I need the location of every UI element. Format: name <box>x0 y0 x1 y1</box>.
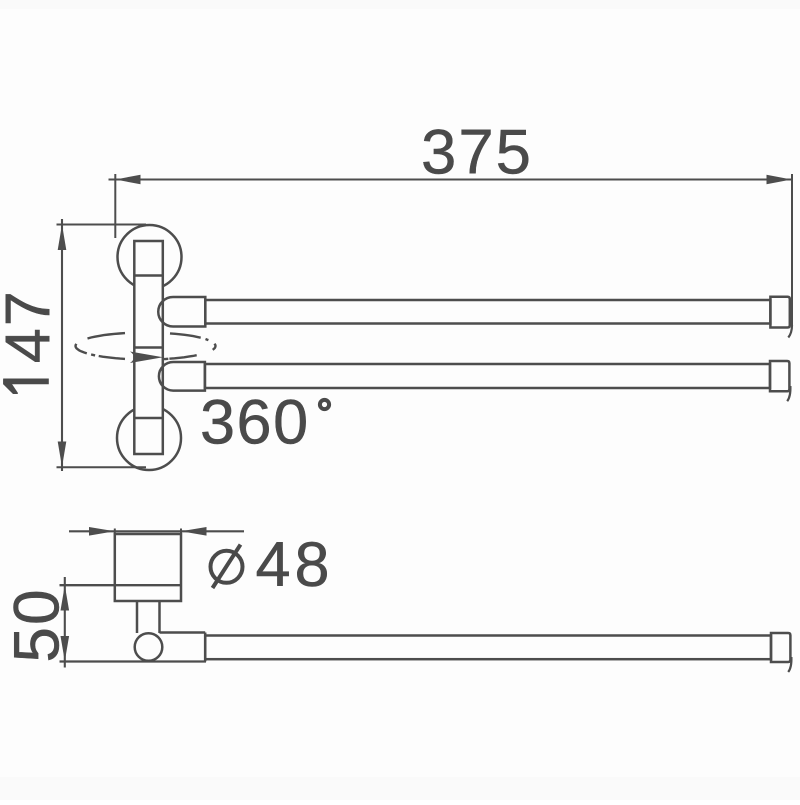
arrow 50 bottom <box>61 636 70 661</box>
upper arm end cap <box>770 297 789 328</box>
rotation ellipse left end dash <box>76 344 87 354</box>
arrow 147 bottom <box>58 442 67 468</box>
lower cap tail arc <box>787 386 790 401</box>
mounting post <box>134 241 163 454</box>
side bar <box>205 636 771 660</box>
wall plate circle bottom <box>117 406 181 470</box>
extension line 50 bottom <box>60 660 207 662</box>
stem right line <box>158 601 161 633</box>
side view cup <box>115 534 181 601</box>
side cap tail arc <box>788 657 791 672</box>
svg-text:360: 360 <box>200 388 310 458</box>
rotation ellipse top-left dash <box>88 333 126 338</box>
side hub top line <box>160 631 206 634</box>
side hub right edge <box>204 633 207 662</box>
dimension line 50 <box>64 577 66 668</box>
svg-text:50: 50 <box>1 587 73 662</box>
extension line 375 left <box>114 174 116 238</box>
rotation arrowhead <box>130 352 163 364</box>
wall plate circle top <box>118 225 182 289</box>
post cross line top <box>134 274 163 277</box>
lower arm hub <box>159 362 205 391</box>
rotation ellipse top-right dot <box>206 339 209 340</box>
lower arm end cap <box>770 361 789 391</box>
upper arm hub <box>158 297 205 327</box>
upper cap tail arc <box>788 325 792 338</box>
dimension line 48 <box>69 530 244 532</box>
pivot ball <box>135 633 163 661</box>
diameter slash <box>213 545 241 588</box>
rotation ellipse bottom dot <box>163 358 168 361</box>
rotation ellipse top-right dash <box>170 333 201 337</box>
svg-text:375: 375 <box>421 118 533 188</box>
post cross line middle <box>134 346 163 349</box>
side end cap <box>771 633 790 662</box>
post cross line bottom <box>134 417 163 420</box>
extension line 147 top <box>57 224 147 226</box>
lower arm bar <box>205 364 770 388</box>
extension line 375 right <box>791 174 793 326</box>
rotation ellipse bottom-left dot <box>91 353 95 356</box>
rotation ellipse bottom-right dash <box>169 355 196 359</box>
cup extension right <box>180 529 182 535</box>
dimension line 375 <box>109 178 792 180</box>
cup extension left <box>114 529 116 535</box>
arrow 375 left <box>116 175 141 185</box>
rotation ellipse right end dash <box>213 344 216 350</box>
upper arm bar <box>205 300 770 324</box>
top edge tint <box>0 0 800 9</box>
label 147 digit 1 flag <box>3 379 18 394</box>
svg-text:48: 48 <box>255 530 333 600</box>
extension line 147 bottom <box>57 466 147 468</box>
label 147 digit 1 stem <box>3 379 49 385</box>
arrow 375 right <box>767 175 792 184</box>
svg-text:47: 47 <box>0 289 63 363</box>
arrow 50 top <box>61 585 70 610</box>
stem left line <box>136 601 139 633</box>
dimension line 147 <box>61 219 63 471</box>
bottom edge tint <box>0 777 800 800</box>
cup rim line <box>60 584 182 586</box>
arrow 48 left <box>89 527 115 536</box>
arrow 48 right <box>181 527 207 536</box>
rotation ellipse bottom-left dash <box>99 356 125 359</box>
diameter symbol <box>211 551 243 583</box>
arrow 147 top <box>58 225 67 251</box>
degree symbol <box>320 400 329 409</box>
